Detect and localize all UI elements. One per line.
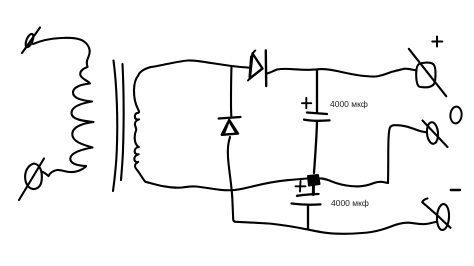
capacitor C1 value label	[330, 99, 368, 109]
capacitor C1 wire from top rail	[316, 69, 318, 111]
capacitor C2 value label	[331, 198, 369, 208]
capacitor C2 top plate	[297, 194, 319, 196]
capacitor C2 bottom plate	[292, 204, 321, 205]
terminal X4 (middle output, crossed loop)	[423, 121, 448, 148]
diode D1 (series, anode left)	[248, 51, 263, 81]
diode D1 cathode bar	[265, 51, 268, 87]
mid rail wire (junction to middle terminal riser)	[319, 178, 388, 186]
capacitor C1 wire to junction blob	[314, 122, 317, 173]
plus sign (+ output)	[432, 37, 442, 47]
capacitor C2 plus sign	[296, 181, 306, 192]
wire D2 branch (top rail down to D2 cathode)	[230, 67, 233, 117]
diode D2 (triangle pointing up)	[222, 120, 238, 135]
bottom rail wire (D2 anode to - terminal)	[236, 222, 437, 234]
diode D2 cathode bar	[219, 117, 241, 119]
junction node blob	[308, 175, 320, 186]
terminal X3 (+ output, crossed loop)	[409, 49, 447, 97]
capacitor C1 top plate	[307, 113, 327, 115]
capacitor C1 bottom plate	[304, 120, 330, 121]
capacitor C2 wire from blob	[312, 184, 315, 195]
terminal X2 (bottom-left input, crossed circle)	[19, 159, 44, 201]
wire D2 anode down to bottom rail	[228, 137, 236, 222]
wire input X1 to primary top	[33, 38, 90, 58]
terminal X5 (- output, crossed loop)	[422, 198, 450, 230]
label 0 (hand-drawn zero)	[450, 106, 463, 124]
wire mid rail riser to middle terminal	[388, 125, 427, 183]
transformer core line 1	[113, 61, 117, 192]
capacitor C2 wire to bottom rail	[307, 207, 309, 229]
minus sign (- output)	[451, 189, 460, 191]
primary winding L1	[70, 58, 93, 166]
mid rail wire (secondary bottom to C1/C2 junction)	[146, 179, 308, 191]
wire primary bottom to terminal X2	[42, 167, 87, 177]
capacitor C1 plus sign	[302, 98, 311, 109]
top rail wire (secondary top to D1)	[150, 60, 251, 67]
secondary winding L2	[134, 67, 150, 182]
top rail wire (D1 to + terminal)	[267, 69, 417, 77]
transformer core line 2	[121, 64, 124, 180]
terminal X1 (top-left input, crossed circle)	[22, 28, 40, 54]
